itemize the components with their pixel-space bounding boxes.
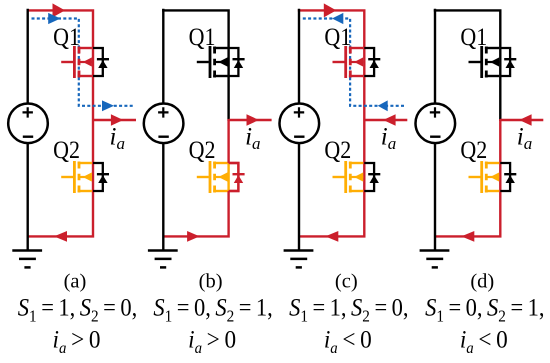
ground bbox=[284, 251, 314, 268]
transistor Q1 drain lead bbox=[78, 47, 92, 49]
panel (c) half-bridge leg bbox=[280, 3, 409, 357]
voltage source + sign bbox=[23, 107, 33, 117]
wire: output node i_a bbox=[93, 119, 136, 121]
voltage source + sign bbox=[294, 107, 304, 117]
label Q2 bbox=[189, 137, 216, 165]
voltage source - sign bbox=[294, 135, 304, 137]
Q1 body diode bbox=[368, 59, 380, 68]
transistor Q1 source lead bbox=[485, 75, 499, 77]
wire: top rail and upper right leg (black) bbox=[162, 10, 229, 121]
wire: red lower right leg and bottom rail bbox=[435, 119, 500, 236]
label Q1 bbox=[53, 24, 80, 52]
blue arrow at output (left) bbox=[378, 100, 388, 111]
current arrow on bottom rail (left) bbox=[461, 231, 474, 242]
transistor Q2 gate bar bbox=[344, 161, 347, 193]
Q2 body diode loop bbox=[364, 163, 374, 191]
label Q2 bbox=[53, 137, 80, 165]
wire: left leg lower (source to ground) bbox=[162, 143, 164, 251]
panel (b) half-bridge leg bbox=[144, 9, 273, 357]
current arrow on top rail (right) bbox=[53, 3, 66, 17]
transistor Q2 drain lead bbox=[78, 162, 92, 164]
Q1 body diode loop bbox=[93, 48, 103, 76]
voltage source - sign bbox=[430, 135, 440, 137]
transistor Q2 gate lead bbox=[333, 176, 345, 178]
voltage source bbox=[416, 104, 456, 144]
Q2 source-drain connector (yellow) bbox=[227, 163, 229, 191]
voltage source - sign bbox=[23, 135, 33, 137]
Q1 body diode bbox=[97, 59, 109, 68]
caption current sign bbox=[188, 326, 236, 357]
blue dashed channel-current path bbox=[303, 19, 407, 106]
svg-text:Q2: Q2 bbox=[460, 137, 487, 165]
current arrow on bottom rail (right) bbox=[187, 231, 200, 242]
current arrow on bottom rail (left) bbox=[325, 231, 338, 242]
transistor Q1 channel segments bbox=[485, 47, 488, 78]
wire: left leg lower (source to ground) bbox=[27, 143, 29, 251]
caption switch states bbox=[425, 294, 544, 325]
output current arrow i_a (left) bbox=[519, 114, 531, 126]
svg-text:Q2: Q2 bbox=[53, 137, 80, 165]
blue arrow top (left) bbox=[332, 13, 343, 24]
transistor Q2 gate lead bbox=[61, 176, 73, 178]
transistor Q2 drain lead bbox=[485, 162, 499, 164]
transistor Q2 gate bar bbox=[480, 161, 483, 193]
transistor Q1 drain lead bbox=[485, 47, 499, 49]
label Q1 bbox=[324, 24, 351, 52]
label Q1 bbox=[189, 24, 216, 52]
svg-text:(d): (d) bbox=[470, 271, 494, 293]
transistor Q2 gate bar bbox=[73, 161, 76, 193]
Q1 body diode loop bbox=[364, 48, 374, 76]
Q1 body diode bbox=[504, 59, 516, 68]
transistor Q1 channel segments bbox=[349, 47, 352, 78]
wire: output node i_a bbox=[229, 119, 272, 121]
wire: left leg upper (source to top rail) bbox=[162, 9, 164, 104]
wire: red path through Q2 body diode and bottom rail bbox=[163, 119, 238, 236]
caption switch states bbox=[18, 294, 137, 325]
caption current sign bbox=[53, 326, 101, 357]
transistor Q2 channel segments bbox=[485, 162, 488, 193]
output current arrow i_a (right) bbox=[111, 114, 123, 126]
wire: left leg lower (source to ground) bbox=[434, 143, 436, 251]
transistor Q2 drain lead bbox=[349, 162, 363, 164]
wire: output node i_a bbox=[364, 119, 407, 121]
transistor Q1 drain lead bbox=[349, 47, 363, 49]
transistor Q1 source lead bbox=[213, 75, 227, 77]
transistor Q2 channel segments bbox=[349, 162, 352, 193]
blue dashed channel-current path bbox=[32, 19, 136, 106]
voltage source bbox=[280, 104, 320, 144]
wire: left leg upper (source to top rail) bbox=[27, 9, 29, 104]
wire: red current loop (top rail, right leg, bottom rail) bbox=[27, 10, 94, 236]
transistor Q2 source lead bbox=[213, 190, 227, 192]
label Q1 bbox=[460, 24, 487, 52]
transistor Q2 channel segments bbox=[213, 162, 216, 193]
transistor Q1 gate lead bbox=[333, 61, 345, 63]
transistor Q2 drain lead bbox=[213, 162, 227, 164]
ground bbox=[12, 251, 42, 268]
transistor Q1 body lead with arrow bbox=[350, 57, 363, 66]
transistor Q1 body lead with arrow bbox=[486, 57, 499, 66]
caption switch states bbox=[153, 294, 272, 325]
transistor Q1 channel segments bbox=[213, 47, 216, 78]
svg-text:Q1: Q1 bbox=[324, 24, 351, 52]
wire: left leg upper (source to top rail) bbox=[434, 9, 436, 104]
transistor Q1 body lead with arrow bbox=[215, 57, 228, 66]
transistor Q1 body lead with arrow bbox=[79, 57, 92, 66]
transistor Q1 gate bar bbox=[480, 46, 483, 78]
blue arrow at output (right) bbox=[102, 100, 114, 111]
ground bbox=[420, 251, 450, 268]
wire: output node i_a bbox=[500, 119, 543, 121]
transistor Q1 gate lead bbox=[61, 61, 73, 63]
Q1 body diode loop bbox=[500, 48, 510, 76]
svg-text:Q1: Q1 bbox=[460, 24, 487, 52]
wire: top rail and upper right leg (black) bbox=[434, 10, 501, 121]
transistor Q2 source lead bbox=[349, 190, 363, 192]
svg-text:Q1: Q1 bbox=[189, 24, 216, 52]
transistor Q2 body lead with arrow bbox=[350, 172, 363, 181]
panel (a) half-bridge leg bbox=[8, 3, 137, 357]
panel (d) half-bridge leg bbox=[416, 9, 545, 357]
transistor Q1 source lead bbox=[78, 75, 92, 77]
output current arrow i_a (left) bbox=[383, 114, 395, 126]
Q2 body diode loop bbox=[93, 163, 103, 191]
output current arrow i_a (right) bbox=[247, 114, 259, 126]
Q2 body diode bbox=[233, 174, 245, 183]
transistor Q2 gate lead bbox=[197, 176, 209, 178]
transistor Q1 gate bar bbox=[209, 46, 212, 78]
transistor Q1 channel segments bbox=[78, 47, 81, 78]
svg-text:Q2: Q2 bbox=[324, 137, 351, 165]
transistor Q2 body lead with arrow bbox=[215, 172, 228, 181]
transistor Q1 gate lead bbox=[197, 61, 209, 63]
transistor Q1 gate lead bbox=[469, 61, 481, 63]
svg-text:Q2: Q2 bbox=[189, 137, 216, 165]
Q1 body diode loop bbox=[229, 48, 239, 76]
label Q2 bbox=[324, 137, 351, 165]
transistor Q1 drain lead bbox=[213, 47, 227, 49]
voltage source bbox=[8, 104, 48, 144]
caption current sign bbox=[324, 326, 372, 357]
Q2 body diode loop bbox=[229, 163, 239, 191]
transistor Q2 channel segments bbox=[78, 162, 81, 193]
transistor Q2 source lead bbox=[485, 190, 499, 192]
transistor Q2 gate lead bbox=[469, 176, 481, 178]
voltage source - sign bbox=[158, 135, 168, 137]
voltage source bbox=[144, 104, 184, 144]
transistor Q1 gate bar bbox=[344, 46, 347, 78]
ground bbox=[148, 251, 178, 268]
transistor Q1 gate bar bbox=[73, 46, 76, 78]
transistor Q2 gate bar bbox=[209, 161, 212, 193]
caption switch states bbox=[289, 294, 408, 325]
transistor Q2 source lead bbox=[78, 190, 92, 192]
transistor Q2 body lead with arrow bbox=[79, 172, 92, 181]
current arrow on bottom rail (left) bbox=[54, 231, 67, 242]
voltage source + sign bbox=[158, 107, 168, 117]
svg-text:(a): (a) bbox=[64, 271, 87, 293]
svg-text:(b): (b) bbox=[199, 271, 223, 293]
transistor Q1 source lead bbox=[349, 75, 363, 77]
label Q2 bbox=[460, 137, 487, 165]
Q2 body diode bbox=[504, 174, 516, 183]
wire: left leg upper (source to top rail) bbox=[298, 9, 300, 104]
Q2 body diode bbox=[368, 174, 380, 183]
svg-text:Q1: Q1 bbox=[53, 24, 80, 52]
voltage source + sign bbox=[430, 107, 440, 117]
blue arrow top (right) bbox=[48, 13, 60, 24]
wire: left leg lower (source to ground) bbox=[298, 143, 300, 251]
svg-text:(c): (c) bbox=[335, 271, 358, 293]
Q2 body diode loop bbox=[500, 163, 510, 191]
caption current sign bbox=[460, 326, 508, 357]
current arrow on top rail (right) bbox=[324, 3, 337, 17]
Q2 body diode bbox=[97, 174, 109, 183]
wire: red current loop (top rail, right leg, bottom rail) bbox=[298, 10, 365, 236]
transistor Q2 body lead with arrow bbox=[486, 172, 499, 181]
Q1 body diode bbox=[233, 59, 245, 68]
